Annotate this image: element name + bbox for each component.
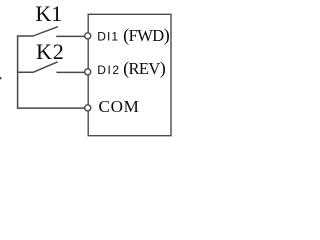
- wire: K1 right segment to DI1 terminal: [56, 35, 84, 37]
- switch K1 blade: [33, 27, 58, 36]
- svg-text:(REV): (REV): [123, 58, 166, 79]
- svg-text:DI2: DI2: [97, 63, 119, 77]
- wire: K2 left segment: [17, 71, 34, 73]
- svg-text:COM: COM: [99, 97, 139, 116]
- left-edge crop artifact mark: [0, 77, 1, 79]
- wire: K2 right segment to DI2 terminal: [56, 71, 84, 73]
- svg-text:K1: K1: [35, 1, 62, 26]
- terminal DI1 circle: [85, 33, 91, 39]
- terminal COM circle: [85, 105, 91, 111]
- svg-text:K2: K2: [36, 39, 64, 64]
- switch K2 blade: [33, 62, 57, 72]
- wire: bottom segment to COM terminal: [17, 107, 84, 109]
- svg-text:DI1: DI1: [97, 29, 118, 43]
- wire: K1 left segment: [17, 35, 34, 37]
- wire: left common vertical bus: [17, 36, 19, 109]
- svg-text:(FWD): (FWD): [123, 25, 170, 46]
- terminal DI2 circle: [85, 69, 91, 75]
- terminal box U1: [88, 14, 171, 135]
